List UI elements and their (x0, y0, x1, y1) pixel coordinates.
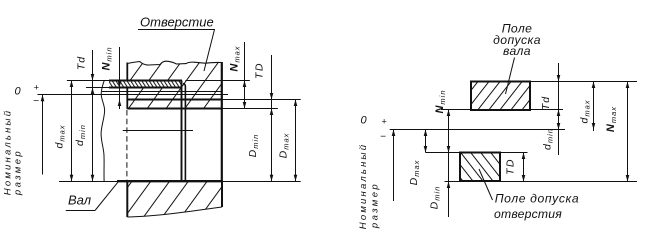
zero line (38, 94, 229, 96)
hub left edge (126, 63, 128, 109)
nominal size dimension line (41, 95, 45, 175)
hub bottom block right edge (221, 181, 223, 207)
bottom reference line thin right part (223, 181, 301, 183)
d_max dimension line (70, 81, 74, 182)
shaft tolerance zone top edge (d_max level) (109, 80, 182, 82)
shaft tolerance field rect (471, 82, 530, 111)
N_max dimension line (243, 42, 247, 109)
d_min level extension line left (441, 109, 471, 111)
leader line label Otverstie (138, 30, 215, 72)
N_min and D_min shared dimension line (447, 110, 451, 218)
hub right edge (221, 62, 223, 181)
svg-text:Номинальный: Номинальный (358, 143, 369, 229)
shaft end face (181, 81, 183, 182)
D_max level extension line right (222, 99, 301, 101)
svg-text:−: − (380, 132, 386, 143)
D_min level extension line right (222, 108, 278, 110)
svg-text:TD: TD (505, 158, 517, 175)
hub (hole part) hatched body (127, 61, 221, 109)
leader line label Val (66, 181, 119, 210)
svg-text:размер: размер (13, 149, 24, 196)
Td and d_min shared dimension line (557, 63, 561, 155)
svg-text:+: + (382, 117, 387, 127)
svg-text:−: − (33, 96, 39, 107)
svg-text:отверстия: отверстия (494, 207, 562, 221)
d_min level extension line right (530, 109, 563, 111)
svg-text:Td: Td (76, 56, 88, 70)
D_max level extension line right (500, 152, 528, 154)
d_max dimension line (592, 82, 596, 132)
shaft tolerance zone band (dense hatch) (109, 81, 182, 88)
svg-text:TD: TD (254, 62, 266, 79)
Td and d_min shared dimension line (91, 50, 95, 181)
hub bottom block hatched body (127, 181, 222, 217)
d_max level extension line (530, 81, 637, 83)
bottom reference line (bore bottom surface) thin left part (59, 181, 117, 183)
zero line (390, 129, 565, 131)
TD dimension line (522, 153, 526, 182)
shaft surface line (102, 91, 222, 93)
shaft tolerance zone bottom edge (d_min level) (109, 87, 182, 89)
hole tolerance zone bottom edge (D_min level) (127, 108, 222, 110)
bottom reference line bold part (117, 180, 223, 182)
leader line hole field label (479, 169, 493, 200)
hub bottom block left edge (126, 181, 128, 217)
N_max dimension line (626, 82, 630, 182)
D_max dimension line (294, 100, 298, 182)
N_min dimension line (118, 47, 122, 109)
hub left edge hidden (dashed) (126, 110, 128, 181)
D_min level extension line left (445, 181, 461, 183)
svg-text:размер: размер (370, 182, 381, 229)
TD and D_min shared dimension line (270, 55, 274, 181)
d_max level extension line left (67, 80, 109, 82)
d_min level extension line (86, 87, 109, 89)
shaft left wavy break line (101, 81, 105, 181)
svg-text:вала: вала (503, 44, 531, 58)
svg-text:0: 0 (361, 115, 368, 127)
svg-text:Вал: Вал (68, 193, 92, 208)
hole tolerance field rect (460, 153, 500, 182)
shaft end fillet edge (183, 84, 185, 182)
bore inner line (123, 130, 193, 132)
svg-text:+: + (34, 83, 39, 93)
leader line shaft field label (506, 58, 515, 95)
D_min level extension line right (500, 181, 637, 183)
svg-text:Поле допуска: Поле допуска (495, 192, 580, 206)
svg-text:Td: Td (540, 96, 552, 110)
nominal size dimension line (392, 130, 396, 202)
hole tolerance zone top edge (D_max level) (127, 99, 222, 101)
D_max dimension line (424, 130, 428, 153)
hub bottom block wavy break edge (127, 207, 222, 217)
svg-text:0: 0 (15, 86, 22, 98)
D_max level extension line left (426, 152, 461, 154)
svg-text:Отверстие: Отверстие (140, 15, 214, 30)
hub top wavy break edge (127, 61, 221, 65)
d_max level extension line right (185, 80, 249, 82)
